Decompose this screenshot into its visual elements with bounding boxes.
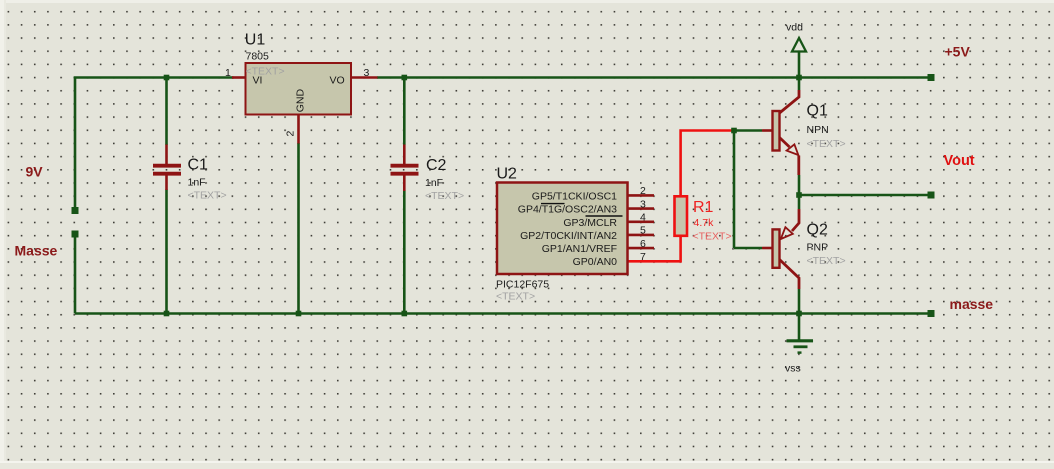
svg-text:+5V: +5V (945, 44, 971, 60)
svg-text:vss: vss (785, 363, 801, 375)
svg-text:6: 6 (640, 238, 646, 250)
wire U2 pin7 to R1 bottom (628, 236, 681, 261)
vdd power symbol (792, 38, 806, 52)
wire ground symbol drop (798, 314, 801, 341)
node C1 bottom (164, 311, 170, 317)
capacitor C1 (153, 145, 227, 202)
wire node down leg (733, 131, 736, 249)
node C2 bottom (402, 311, 408, 317)
svg-text:PIC12F675: PIC12F675 (496, 279, 549, 291)
U1 body (246, 63, 352, 115)
node vss junction (796, 311, 802, 317)
Q1 emitter (780, 138, 790, 148)
wire C2 bottom branch (403, 191, 406, 314)
svg-text:VO: VO (330, 75, 345, 87)
U2 pin 4 stub (628, 221, 655, 224)
C1 top pin stub (165, 145, 168, 165)
wire to Q2 base (734, 247, 762, 250)
svg-text:C2: C2 (426, 157, 447, 174)
wire Masse vertical (74, 234, 77, 314)
terminal +5V right (928, 74, 935, 81)
svg-text:GP2/T0CKI/INT/AN2: GP2/T0CKI/INT/AN2 (520, 230, 617, 242)
Q2 emitter arrow (781, 227, 793, 239)
svg-text:GP4/T1G/OSC2/AN3: GP4/T1G/OSC2/AN3 (518, 204, 617, 216)
svg-text:GP3/MCLR: GP3/MCLR (563, 217, 617, 229)
transistor Q1 NPN (762, 90, 846, 175)
svg-text:PNP: PNP (807, 242, 829, 254)
U1 pin 2 stub (297, 115, 300, 144)
U1 pin 1 stub (232, 76, 246, 79)
svg-text:GP0/AN0: GP0/AN0 (573, 256, 618, 268)
svg-text:<TEXT>: <TEXT> (188, 190, 227, 202)
svg-text:Q2: Q2 (807, 222, 828, 239)
wire R1 top to base node (681, 131, 734, 197)
ground symbol vss (787, 341, 814, 353)
wire node to Q1 base (734, 129, 762, 132)
R1 body (675, 196, 688, 236)
wire C2 top branch (403, 78, 406, 146)
svg-text:4: 4 (640, 212, 646, 224)
C2 bottom plate (391, 172, 419, 176)
svg-text:GND: GND (295, 89, 307, 113)
svg-text:NPN: NPN (807, 124, 829, 136)
U2 pin 5 stub (628, 234, 655, 237)
svg-text:R1: R1 (693, 199, 714, 216)
svg-text:1: 1 (225, 67, 231, 79)
U2 PIC12F675 (496, 166, 654, 303)
svg-text:9V: 9V (26, 163, 44, 179)
svg-text:C1: C1 (188, 157, 209, 174)
svg-text:1nF: 1nF (188, 177, 206, 189)
terminal masse right (928, 310, 935, 317)
U1 regulator 7805 (225, 32, 378, 144)
svg-text:7805: 7805 (246, 51, 270, 63)
svg-text:4.7k: 4.7k (694, 217, 715, 229)
node R1 / base (731, 128, 737, 134)
resistor R1 (675, 196, 732, 242)
svg-text:<TEXT>: <TEXT> (807, 138, 846, 150)
Q2 collector (780, 260, 800, 290)
wire 9V vertical and top-left rail (75, 78, 234, 209)
Q1 collector (780, 90, 800, 113)
svg-text:Vout: Vout (944, 153, 975, 169)
U2 pin 3 stub (628, 207, 655, 210)
wire C1 top branch (165, 78, 168, 146)
svg-text:U1: U1 (245, 32, 266, 49)
terminal Vout right (928, 192, 935, 199)
svg-text:<TEXT>: <TEXT> (425, 190, 464, 202)
svg-text:Q1: Q1 (807, 103, 828, 120)
svg-text:3: 3 (364, 67, 370, 79)
Q2 base stub (762, 247, 773, 250)
svg-text:5: 5 (640, 225, 646, 237)
Q2 emitter (792, 209, 799, 231)
Q2 base bar (773, 229, 780, 267)
C2 bottom pin stub (403, 176, 406, 192)
terminal 9V (72, 207, 79, 214)
svg-text:2: 2 (285, 131, 297, 137)
svg-text:GP1/AN1/VREF: GP1/AN1/VREF (542, 243, 617, 255)
wire vdd drop (798, 52, 801, 78)
node Vout (796, 192, 802, 198)
Q1 base stub (762, 129, 773, 132)
svg-text:Masse: Masse (15, 242, 58, 258)
node C1 top (164, 75, 170, 81)
svg-text:<TEXT>: <TEXT> (246, 66, 285, 78)
wire output node to Q2 emitter (798, 195, 801, 209)
U2 pin 2 stub (628, 194, 655, 197)
svg-text:GP5/T1CKI/OSC1: GP5/T1CKI/OSC1 (532, 191, 617, 203)
U2 MCLR overline (586, 215, 623, 217)
svg-text:<TEXT>: <TEXT> (496, 291, 535, 303)
U2 pin 6 stub (628, 247, 655, 250)
svg-text:1nF: 1nF (425, 177, 443, 189)
svg-text:<TEXT>: <TEXT> (807, 255, 846, 267)
wire top rail right of U1 to +5V terminal (377, 76, 931, 79)
wire +5V rail to Q1 collector (798, 78, 801, 91)
C2 top plate (391, 164, 419, 168)
node vdd / Q1 collector (796, 75, 802, 81)
C2 top pin stub (403, 145, 406, 165)
wire Q2 collector to ground rail (798, 289, 801, 314)
node C2 top (402, 75, 408, 81)
Q1 base bar (773, 111, 780, 151)
U2 body (497, 183, 628, 275)
svg-text:U2: U2 (497, 166, 518, 183)
wire C1 bottom branch (165, 190, 168, 314)
svg-text:<TEXT>: <TEXT> (693, 231, 732, 243)
wire bottom ground rail (75, 312, 931, 315)
node U1 gnd bottom (296, 311, 302, 317)
wire Vout rail (799, 194, 931, 197)
capacitor C2 (391, 145, 465, 203)
C1 bottom plate (153, 172, 181, 176)
transistor Q2 PNP (762, 209, 846, 289)
svg-text:vdd: vdd (786, 22, 803, 34)
C1 bottom pin stub (165, 176, 168, 191)
wire Q1 emitter to output node (798, 175, 801, 195)
C1 top plate (153, 164, 181, 168)
svg-text:3: 3 (640, 198, 646, 210)
wire U1 pin2 to ground rail (297, 143, 300, 314)
svg-text:2: 2 (640, 185, 646, 197)
svg-text:7: 7 (640, 251, 646, 263)
terminal Masse (72, 231, 79, 238)
Q1 emitter arrow (787, 144, 799, 155)
svg-text:VI: VI (253, 75, 263, 87)
svg-text:masse: masse (950, 296, 994, 312)
red highlighted wires (628, 131, 735, 262)
U2 T1G overline (541, 203, 565, 205)
U1 pin 3 stub (351, 76, 378, 79)
